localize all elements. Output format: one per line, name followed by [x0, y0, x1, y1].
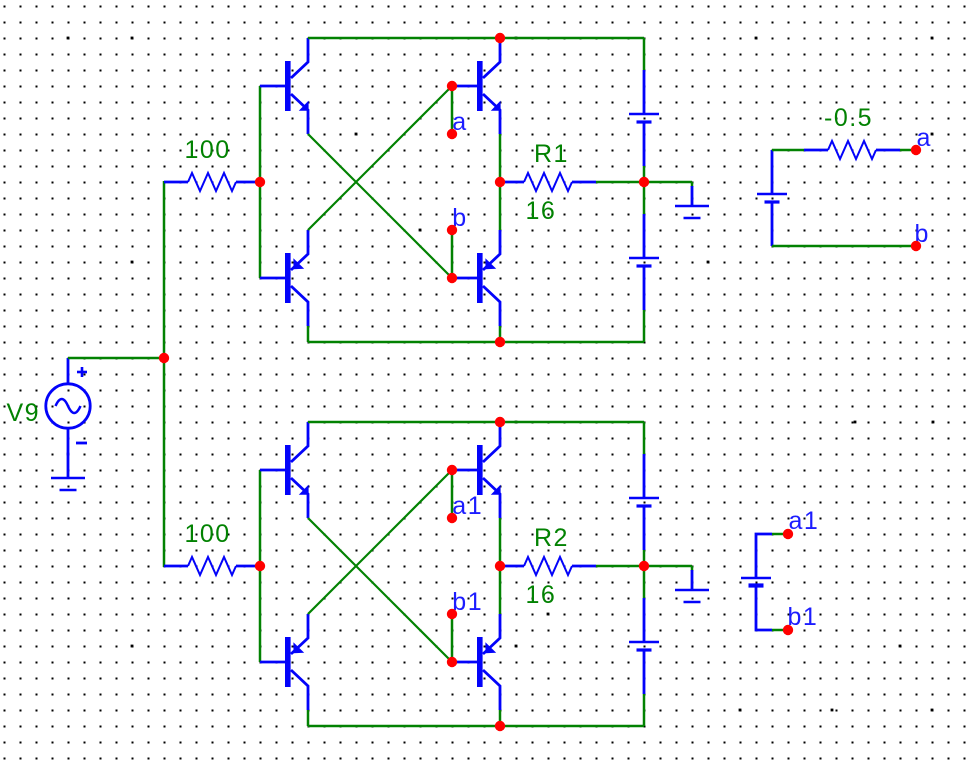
node terminal b1	[783, 625, 793, 635]
node b terminal	[447, 225, 457, 235]
transistor Q-bottom-upper-right (NPN)	[452, 422, 501, 518]
resistor resistor -0.5 (ab model)	[804, 141, 900, 159]
wire load to battery mid (bottom)	[596, 565, 644, 568]
transistor Q-top-lower-right (PNP)	[452, 230, 500, 326]
wire a1 stub	[451, 470, 454, 518]
node load left node (top)	[495, 177, 505, 187]
larger grid dots	[67, 37, 935, 712]
transistor Q-top-upper-left (NPN)	[260, 38, 309, 134]
wire top rail (bottom)	[308, 421, 644, 424]
wire diagonal upper-left to lower-right (top)	[308, 134, 452, 278]
wire left emitter drop (bottom)	[307, 710, 310, 726]
svg-text:100: 100	[185, 136, 231, 164]
node base bus left (top)	[255, 177, 265, 187]
battery B-top-lower	[629, 214, 659, 310]
ground GND-V9	[51, 454, 85, 490]
ground GND-bottom	[675, 566, 709, 602]
svg-text:b1: b1	[788, 603, 819, 631]
node bottom rail node (bottom)	[495, 721, 505, 731]
node b lower	[447, 273, 457, 283]
battery B-ab	[757, 150, 787, 246]
svg-text:16: 16	[526, 197, 557, 225]
node top rail node (bottom)	[495, 417, 505, 427]
svg-text:100: 100	[185, 520, 231, 548]
svg-text:-0.5: -0.5	[824, 104, 873, 132]
node bottom rail node (top)	[495, 337, 505, 347]
node terminal a1	[783, 529, 793, 539]
wire top rail (top)	[308, 37, 644, 40]
node a1 terminal	[447, 513, 457, 523]
wire left base bus (top)	[259, 86, 262, 278]
wire load node to lower collector (top)	[499, 182, 502, 230]
node a1 upper	[447, 465, 457, 475]
svg-text:R1: R1	[534, 140, 569, 168]
wire right collector drop (top)	[499, 326, 502, 342]
node battery mid node (bottom)	[639, 561, 649, 571]
wire bottom rail (bottom)	[308, 725, 644, 728]
node terminal a	[911, 145, 921, 155]
resistor load resistor R2 (bottom)	[500, 557, 596, 575]
battery for a1/b1 model	[741, 534, 772, 630]
wire battery to node a1	[772, 533, 788, 536]
svg-text:R2: R2	[534, 524, 569, 552]
wire battery1 to mid (bottom)	[643, 550, 646, 566]
transistor Q-bottom-lower-left (PNP)	[260, 614, 308, 710]
wire resistor to node a (ab)	[900, 149, 916, 152]
node b1 terminal	[447, 609, 457, 619]
node a upper	[447, 81, 457, 91]
voltage source V9 (sine source)	[46, 358, 90, 454]
wire rail to battery1 (bottom)	[643, 422, 646, 454]
wire battery to node b1	[772, 629, 788, 632]
resistor load resistor R1 (top)	[500, 173, 596, 191]
svg-text:a1: a1	[789, 507, 820, 535]
svg-text:V9: V9	[7, 399, 41, 427]
node b1 lower	[447, 657, 457, 667]
wire load to battery mid (top)	[596, 181, 644, 184]
wire battery2 to rail (top)	[643, 310, 646, 342]
svg-text:a1: a1	[452, 492, 483, 520]
wire battery to resistor (ab)	[772, 149, 804, 152]
transistor Q-top-lower-left (PNP)	[260, 230, 308, 326]
wire mid to ground (bottom)	[644, 565, 692, 568]
wire diagonal lower-left to upper-right (top)	[308, 86, 452, 230]
wire left base bus (bottom)	[259, 470, 262, 662]
wire load node to lower collector (bottom)	[499, 566, 502, 614]
node load left node (bottom)	[495, 561, 505, 571]
wire diagonal upper-left to lower-right (bottom)	[308, 518, 452, 662]
wire mid to ground (top)	[644, 181, 692, 184]
node battery mid node (top)	[639, 177, 649, 187]
transistor Q-bottom-upper-left (NPN)	[260, 422, 309, 518]
transistor Q-bottom-lower-right (PNP)	[452, 614, 500, 710]
wire a stub	[451, 86, 454, 134]
wire splitter vertical	[163, 181, 166, 567]
wire rail to battery1 (top)	[643, 38, 646, 70]
resistor 100-ohm input resistor (top bridge)	[164, 173, 260, 191]
node base bus left (bottom)	[255, 561, 265, 571]
wire battery2 to rail (bottom)	[643, 694, 646, 726]
wire V9 to splitter	[68, 357, 165, 360]
wire mid to battery2 (top)	[643, 182, 646, 214]
wire mid to battery2 (bottom)	[643, 566, 646, 598]
transistor Q-top-upper-right (NPN)	[452, 38, 501, 134]
node a terminal	[447, 129, 457, 139]
resistor 100-ohm input resistor (bottom bridge)	[164, 557, 260, 575]
node terminal b	[911, 241, 921, 251]
node splitter junction	[159, 353, 169, 363]
wire b1 stub	[451, 614, 454, 662]
ground GND-top	[675, 182, 709, 218]
wire right emitter to load node (bottom)	[499, 518, 502, 566]
wire left emitter drop (top)	[307, 326, 310, 342]
wire b stub	[451, 230, 454, 278]
svg-text:16: 16	[526, 581, 557, 609]
battery B-bottom-upper	[629, 454, 659, 550]
wire right emitter to load node (top)	[499, 134, 502, 182]
battery B-top-upper	[629, 70, 659, 166]
wire right collector drop (bottom)	[499, 710, 502, 726]
wire diagonal lower-left to upper-right (bottom)	[308, 470, 452, 614]
wire bottom rail (top)	[308, 341, 644, 344]
wire battery1 to mid (top)	[643, 166, 646, 182]
svg-text:b1: b1	[452, 588, 483, 616]
node top rail node (top)	[495, 33, 505, 43]
wire battery to node b (ab)	[772, 245, 916, 248]
battery B-bottom-lower	[629, 598, 659, 694]
